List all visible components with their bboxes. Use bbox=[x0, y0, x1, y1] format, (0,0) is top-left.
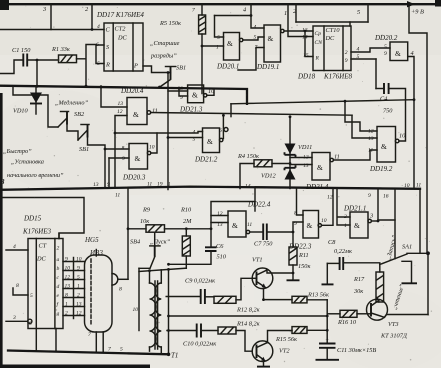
svg-text:510: 510 bbox=[217, 254, 227, 261]
wire: x376 down to C4 bbox=[375, 59, 377, 89]
wire: C1 right lead bbox=[27, 59, 58, 61]
svg-text:R9: R9 bbox=[142, 207, 151, 214]
svg-text:DC: DC bbox=[117, 35, 128, 42]
svg-text:CT2: CT2 bbox=[115, 26, 127, 33]
svg-text:10: 10 bbox=[76, 257, 82, 263]
transformer T1 right winding bbox=[155, 270, 161, 354]
wire: x128 drop from bus bbox=[127, 188, 129, 280]
svg-text:g: g bbox=[57, 311, 60, 317]
wire: DD19.1 pin7 stub bbox=[238, 48, 264, 71]
svg-text:SA1: SA1 bbox=[402, 244, 412, 251]
IC DD15 K176IE3 bbox=[22, 215, 63, 329]
wire: step x231 bbox=[230, 104, 232, 117]
wire: R14 to VT2 base bbox=[236, 331, 252, 352]
svg-text:R: R bbox=[105, 62, 110, 69]
wire: x168.5 transformer centre drop bbox=[168, 269, 170, 354]
wire: R9 line y228.8 bbox=[128, 228, 211, 230]
capacitor C4 bbox=[380, 83, 393, 115]
svg-text:DD21.1: DD21.1 bbox=[343, 205, 366, 213]
wire: y22 link bbox=[296, 21, 368, 23]
svg-text:&: & bbox=[207, 137, 213, 146]
transistor VT3 bbox=[357, 296, 408, 339]
svg-text:5: 5 bbox=[30, 293, 33, 299]
svg-text:13: 13 bbox=[217, 222, 223, 228]
svg-text:DD17 К176ИЕ4: DD17 К176ИЕ4 bbox=[96, 11, 144, 19]
junction bbox=[167, 71, 170, 74]
svg-text:R5 150к: R5 150к bbox=[159, 20, 181, 27]
svg-text:&: & bbox=[133, 110, 139, 119]
svg-text:R1 33к: R1 33к bbox=[51, 46, 70, 53]
svg-text:a: a bbox=[57, 257, 60, 263]
svg-text:10: 10 bbox=[65, 266, 71, 272]
svg-text:14: 14 bbox=[245, 184, 251, 190]
ground (C8) bbox=[322, 283, 334, 285]
svg-text:4: 4 bbox=[243, 7, 246, 14]
wire: VT2 emitter ground bbox=[263, 361, 265, 366]
junction bbox=[36, 85, 39, 88]
svg-text:12: 12 bbox=[76, 311, 82, 317]
wire: DD17 P output to SB1 bbox=[143, 66, 171, 73]
wire: rail lower segment bbox=[427, 253, 429, 314]
wire: drop x37 to lower bus bbox=[36, 60, 38, 86]
svg-text:VD12: VD12 bbox=[261, 173, 277, 180]
svg-text:DD19.2: DD19.2 bbox=[369, 165, 393, 173]
svg-text:&: & bbox=[395, 49, 401, 58]
wire: R11 bottom / VT1 collector node bbox=[292, 265, 294, 280]
svg-text:R11: R11 bbox=[298, 252, 309, 259]
svg-text:14: 14 bbox=[302, 35, 308, 41]
svg-text:13: 13 bbox=[76, 302, 82, 308]
svg-text:CT: CT bbox=[39, 243, 47, 250]
resistor R16 bbox=[337, 310, 357, 326]
wire: y316 to R16 bbox=[327, 313, 340, 315]
gate DD19.1 bbox=[256, 25, 284, 71]
svg-text:VT2: VT2 bbox=[279, 348, 290, 355]
svg-text:К176ИЕ3: К176ИЕ3 bbox=[22, 228, 51, 236]
svg-text:10: 10 bbox=[149, 145, 155, 151]
wire: DD20.2 out down long x414 bbox=[408, 57, 414, 187]
svg-text:4: 4 bbox=[193, 130, 196, 136]
frame: top-right corner mark bbox=[435, 0, 441, 7]
svg-text:SB2: SB2 bbox=[74, 111, 85, 118]
wire: SB2 to SB1 bbox=[67, 125, 78, 141]
svg-text:SB1: SB1 bbox=[176, 65, 186, 72]
transistor VT2 bbox=[252, 341, 290, 362]
resistor R12 bbox=[214, 296, 260, 313]
svg-text:5: 5 bbox=[97, 61, 100, 67]
wire: VT2 collector to R15 bbox=[268, 331, 293, 343]
svg-text:DD20.4: DD20.4 bbox=[120, 87, 144, 95]
svg-text:12: 12 bbox=[327, 195, 333, 201]
svg-text:C9 0,022мк: C9 0,022мк bbox=[185, 278, 215, 285]
svg-text:DD15: DD15 bbox=[23, 215, 42, 223]
frame: left border bbox=[0, 93, 3, 368]
svg-text:R15 56к: R15 56к bbox=[275, 336, 297, 343]
wire: y220 link bbox=[378, 219, 395, 221]
wire: vertical drop x92 from top rail bbox=[91, 4, 93, 29]
resistor R15 bbox=[275, 327, 307, 343]
svg-text:5: 5 bbox=[357, 9, 360, 16]
svg-text:„Медленно”: „Медленно” bbox=[55, 100, 89, 107]
switch SB2 chain wiring bbox=[13, 87, 58, 127]
capacitor C11 bbox=[319, 337, 376, 355]
svg-text:4: 4 bbox=[13, 244, 16, 250]
junction bbox=[91, 28, 94, 31]
wire: DD21.3 out connector bbox=[207, 89, 214, 96]
svg-text:10к: 10к bbox=[140, 218, 149, 225]
svg-text:DD20.2: DD20.2 bbox=[374, 34, 398, 42]
wire: vertical x251 to DD19.1 pin4 bbox=[251, 4, 264, 28]
svg-text:&: & bbox=[381, 142, 387, 151]
gate DD21.4 bbox=[305, 153, 333, 192]
svg-text:1: 1 bbox=[284, 10, 287, 17]
svg-text:P: P bbox=[133, 63, 138, 70]
svg-text:2: 2 bbox=[57, 246, 60, 252]
resistor R17 bbox=[353, 272, 384, 302]
svg-text:9: 9 bbox=[122, 156, 125, 162]
svg-text:&: & bbox=[354, 221, 360, 230]
wire: DD22.3 pin8 from bus bbox=[297, 189, 304, 216]
svg-text:R10: R10 bbox=[180, 207, 192, 214]
wire: DD15 pin3 stub with bubble bbox=[6, 320, 27, 322]
svg-text:b: b bbox=[57, 266, 60, 272]
wire: feedback y133 bbox=[115, 132, 203, 134]
wire: DD22.4 pin link bbox=[211, 202, 255, 229]
diode VD12 bbox=[261, 165, 296, 179]
gate DD22.3 bbox=[288, 211, 321, 251]
wire: DD21.1 out to x378 bbox=[371, 220, 378, 222]
switch SB1 (top) bbox=[160, 65, 187, 88]
wire: x139 drop bbox=[138, 268, 140, 330]
svg-text:8: 8 bbox=[119, 287, 122, 293]
svg-text:9: 9 bbox=[368, 193, 371, 199]
wire: top link y15.5 bbox=[215, 15, 252, 17]
svg-text:12: 12 bbox=[368, 129, 374, 135]
gate DD21.1 bbox=[343, 205, 371, 239]
wire: x378 drop bbox=[377, 189, 379, 221]
resistor R1 bbox=[51, 46, 77, 63]
wire: C4 right to DD19.2 out bbox=[389, 89, 406, 142]
wire: heater line y272-268 bbox=[139, 268, 186, 271]
svg-text:11: 11 bbox=[416, 183, 421, 189]
wire: DD18 out 2 bbox=[351, 58, 376, 60]
svg-text:7: 7 bbox=[192, 8, 195, 14]
capacitor C9 bbox=[166, 278, 215, 305]
svg-text:13: 13 bbox=[118, 101, 124, 107]
arrow on top rail bbox=[407, 1, 415, 7]
svg-text:11: 11 bbox=[152, 108, 158, 115]
wire: x395 drop to SA1 lever bbox=[394, 189, 396, 259]
wire: horizontal y29.5 to DD17 pin C bbox=[0, 29, 104, 31]
svg-text:VD10: VD10 bbox=[13, 108, 29, 115]
diode VD11 bbox=[285, 115, 313, 188]
wire: x214.5 to DD20.1 pin5 bbox=[215, 16, 224, 38]
gate DD19.2 bbox=[369, 127, 399, 174]
svg-text:150к: 150к bbox=[298, 263, 310, 270]
frame: bottom-left border bbox=[0, 365, 150, 368]
svg-text:2М: 2М bbox=[183, 218, 192, 225]
svg-text:7: 7 bbox=[108, 347, 111, 353]
wire: SB1 to DD20.3 pin8 riser bbox=[88, 138, 106, 187]
wire: DD21.3 pin9 riser x179 bbox=[179, 88, 188, 97]
capacitor C7 bbox=[250, 224, 274, 248]
bus B (y104 sloping) bbox=[231, 100, 414, 104]
svg-text:4: 4 bbox=[357, 47, 360, 53]
svg-text:„Старшие: „Старшие bbox=[150, 40, 180, 47]
svg-text:30к: 30к bbox=[353, 288, 363, 295]
svg-text:9: 9 bbox=[65, 257, 68, 263]
svg-text:0,22мк: 0,22мк bbox=[334, 248, 352, 255]
wire: C7 to DD22.3 pin9 bbox=[267, 222, 303, 232]
wire: DD18 out to DD20.2 pin bbox=[351, 48, 390, 52]
capacitor C10 bbox=[167, 324, 218, 348]
svg-text:12: 12 bbox=[117, 109, 123, 115]
indicator HG5 IV-3 bbox=[84, 236, 118, 332]
svg-text:C4: C4 bbox=[380, 96, 387, 103]
svg-text:4: 4 bbox=[97, 24, 100, 30]
svg-text:2: 2 bbox=[345, 50, 348, 56]
svg-text:6: 6 bbox=[219, 128, 222, 134]
svg-text:750: 750 bbox=[383, 108, 393, 115]
wire: vertical x296 down bbox=[295, 4, 297, 22]
switch SB2 bbox=[58, 111, 85, 127]
wire: bus drop x337 to DD21.1 pins bbox=[337, 189, 350, 225]
svg-text:R13 56к: R13 56к bbox=[307, 292, 329, 299]
svg-text:DD22.4: DD22.4 bbox=[247, 201, 271, 209]
svg-text:SB1: SB1 bbox=[79, 146, 89, 153]
wire: DD15 top pin to bus link bbox=[58, 234, 60, 239]
transformer T1 left winding bbox=[150, 270, 157, 351]
svg-text:&: & bbox=[268, 34, 274, 43]
junction bbox=[289, 162, 292, 165]
ground (R11) bbox=[287, 279, 300, 281]
junction bbox=[36, 59, 39, 62]
second middle line bbox=[0, 198, 84, 239]
wire: C1 left lead to left edge bbox=[0, 60, 23, 74]
wire: VT1 emitter drop bbox=[263, 289, 265, 300]
wire: R4 right bbox=[272, 163, 290, 165]
node 6 mark bbox=[224, 128, 228, 132]
svg-text:DD18: DD18 bbox=[297, 73, 316, 81]
transistor VT1 bbox=[252, 257, 273, 289]
wire: DD15 pin8 stub bbox=[13, 288, 28, 295]
svg-text:&: & bbox=[192, 91, 198, 100]
svg-text:9: 9 bbox=[77, 266, 80, 272]
wire: x420 drop to SA1 bbox=[419, 189, 421, 254]
ground (C11) bbox=[316, 359, 340, 361]
wire: vertical x288 to DD18 CN bbox=[288, 4, 313, 36]
svg-text:К176ИЕ8: К176ИЕ8 bbox=[323, 73, 352, 81]
svg-text:3: 3 bbox=[42, 6, 46, 13]
diode VD10 bbox=[13, 86, 42, 114]
svg-text:&: & bbox=[307, 221, 313, 230]
wire: R1 to DD17 R/S network bbox=[77, 45, 97, 87]
wire: R4 left leg to bus bbox=[240, 164, 254, 189]
wire: R15 right to rail bbox=[307, 329, 327, 331]
svg-text:12: 12 bbox=[217, 211, 223, 217]
IC DD18 K176IE8 bbox=[297, 26, 352, 81]
svg-text:10: 10 bbox=[321, 218, 327, 224]
switch SB4 bbox=[130, 233, 171, 269]
svg-text:CT10: CT10 bbox=[326, 27, 341, 34]
wire: DD22.4 power pin from bus bbox=[254, 188, 256, 211]
wire: C8 left to ground bbox=[326, 263, 328, 284]
svg-text:R4 150к: R4 150к bbox=[237, 153, 259, 160]
wire: R13 right to rail x327 bbox=[307, 299, 327, 301]
wire: to DD18 R pin15 bbox=[305, 31, 313, 57]
svg-text:12: 12 bbox=[65, 275, 71, 281]
resistor R13 bbox=[264, 292, 330, 303]
svg-text:8: 8 bbox=[294, 211, 297, 217]
resistor R10 bbox=[180, 207, 192, 269]
gate DD20.4 bbox=[120, 87, 151, 125]
svg-text:10: 10 bbox=[399, 133, 406, 140]
svg-text:5: 5 bbox=[384, 44, 387, 50]
wire: C4 left bbox=[376, 88, 384, 90]
wire: DD15 pin4 stub bbox=[6, 249, 28, 251]
capacitor C8 bbox=[327, 239, 380, 270]
svg-text:R14 8,2к: R14 8,2к bbox=[236, 321, 260, 328]
svg-text:SB4: SB4 bbox=[130, 239, 140, 246]
wire: x101 from bus to DD20.4 pin13 bbox=[101, 86, 127, 107]
svg-text:„Установка: „Установка bbox=[11, 159, 44, 166]
wire: DD19.1 out to DD18 Cp bbox=[284, 30, 313, 32]
svg-text:2: 2 bbox=[77, 293, 80, 299]
capacitor C1 bbox=[12, 47, 31, 67]
svg-text:13: 13 bbox=[93, 182, 99, 188]
gate DD20.2 bbox=[374, 34, 408, 61]
switch SA1 bbox=[380, 244, 430, 284]
svg-text:2: 2 bbox=[344, 214, 347, 220]
wire: R5 bottom to DD20.1 pin1 and DD21.3 bbox=[201, 34, 203, 94]
svg-text:CN: CN bbox=[315, 40, 323, 46]
wire: DD20.1 out to DD19.1 pin5 bbox=[243, 37, 264, 40]
power +9V rail bbox=[409, 4, 427, 253]
wire: DD21.4 pin13 stub bbox=[290, 164, 312, 166]
svg-text:9: 9 bbox=[107, 182, 110, 188]
svg-text:DC: DC bbox=[325, 35, 336, 42]
resistor R9 bbox=[140, 207, 165, 233]
svg-text:8: 8 bbox=[122, 146, 125, 152]
wire: DD15 bottom pin drops bbox=[36, 329, 56, 352]
wire: x368 from top rail bbox=[367, 4, 369, 22]
wire: R17 top to SA1 node bbox=[379, 264, 381, 272]
svg-text:R16 10: R16 10 bbox=[337, 319, 357, 326]
main bus of top half bbox=[0, 86, 247, 104]
svg-text:C10 0,022мк: C10 0,022мк bbox=[183, 341, 216, 348]
svg-text:13: 13 bbox=[368, 136, 374, 142]
svg-text:3: 3 bbox=[369, 213, 373, 220]
svg-text:C6: C6 bbox=[216, 243, 224, 250]
wire: DD22.4 pin 12 stub bbox=[211, 215, 228, 217]
svg-text:&: & bbox=[135, 154, 141, 163]
wire: DD20.4 pin12 riser x115 bbox=[115, 116, 127, 187]
svg-text:HG5: HG5 bbox=[84, 236, 99, 244]
svg-text:11: 11 bbox=[368, 148, 373, 154]
wire: vertical drop x51 from top rail bbox=[50, 4, 52, 29]
svg-text:разряды”: разряды” bbox=[150, 53, 177, 60]
svg-text:DD19.1: DD19.1 bbox=[256, 63, 279, 71]
svg-text:VT3: VT3 bbox=[388, 321, 399, 328]
svg-text:начального времени”: начального времени” bbox=[7, 172, 64, 179]
svg-text:3: 3 bbox=[12, 315, 16, 321]
bottom bus wire bbox=[8, 351, 169, 355]
svg-text:+9 В: +9 В bbox=[411, 9, 424, 16]
junction bbox=[158, 86, 161, 89]
main middle bus bbox=[0, 187, 420, 190]
svg-text:5: 5 bbox=[77, 275, 80, 281]
svg-text:6: 6 bbox=[96, 42, 99, 48]
wire: DD17 S-R tie loop bbox=[96, 45, 104, 64]
wire: DD20.3 out riser x157 bbox=[151, 133, 157, 153]
capacitor C6 bbox=[167, 229, 227, 266]
svg-text:15: 15 bbox=[303, 53, 309, 59]
resistor R14 bbox=[218, 321, 260, 335]
transformer T1 core bbox=[155, 281, 158, 349]
svg-text:13: 13 bbox=[65, 284, 71, 290]
resistor R4 bbox=[237, 153, 272, 167]
wire: DD21.2 out riser to line A bbox=[222, 115, 224, 138]
svg-text:11: 11 bbox=[247, 222, 252, 228]
resistor R11 bbox=[289, 232, 310, 270]
svg-text:DD20.3: DD20.3 bbox=[122, 174, 146, 182]
svg-text:C8: C8 bbox=[328, 239, 336, 246]
wire: VT3 collector to rail bbox=[385, 315, 429, 318]
svg-text:5: 5 bbox=[254, 35, 257, 41]
svg-text:R17: R17 bbox=[353, 276, 365, 283]
wire: HG5 bottom pins bbox=[96, 332, 103, 352]
svg-text:d: d bbox=[57, 284, 60, 290]
svg-text:„Быстро”: „Быстро” bbox=[3, 148, 32, 155]
wire: vertical x168 long drop bbox=[167, 73, 169, 190]
wire: DD21.4 out to DD19.2 pin11 bbox=[333, 150, 377, 160]
svg-text:DC: DC bbox=[36, 256, 47, 263]
svg-text:5: 5 bbox=[120, 347, 123, 353]
svg-text:1: 1 bbox=[65, 302, 68, 308]
svg-text:1: 1 bbox=[77, 284, 80, 290]
wire: x345 step to DD19.2 pin12 bbox=[345, 101, 377, 131]
svg-text:11: 11 bbox=[147, 182, 152, 188]
wire: DD20.3 pin 9 bbox=[109, 157, 129, 159]
svg-text:9: 9 bbox=[345, 58, 348, 64]
svg-text:8: 8 bbox=[65, 293, 68, 299]
svg-text:Т1: Т1 bbox=[171, 352, 178, 360]
gate DD20.3 bbox=[122, 144, 151, 182]
line A: DD20.4 out long run bbox=[151, 113, 352, 116]
wire: DD21.3 pin8 stub bbox=[168, 90, 188, 92]
svg-text:19: 19 bbox=[157, 182, 163, 188]
svg-text:2: 2 bbox=[65, 311, 68, 317]
svg-text:R12 8,2к: R12 8,2к bbox=[236, 307, 260, 314]
svg-text:&: & bbox=[232, 221, 238, 230]
wire: x352 down to DD19.2 pin13 bbox=[352, 115, 377, 138]
svg-text:5: 5 bbox=[357, 54, 360, 60]
DD15 segment rows grid bbox=[57, 257, 85, 319]
svg-text:DD21.2: DD21.2 bbox=[194, 156, 218, 164]
svg-text:12: 12 bbox=[303, 155, 309, 161]
svg-text:C7 750: C7 750 bbox=[254, 241, 273, 248]
wire: DD20.3 pin 8 bbox=[105, 148, 129, 150]
svg-text:10: 10 bbox=[404, 183, 410, 189]
wire: rail x327 bbox=[326, 300, 328, 343]
svg-text:5: 5 bbox=[217, 35, 220, 41]
wire: long line y316 bbox=[169, 315, 328, 317]
svg-text:8: 8 bbox=[16, 283, 19, 289]
switch SB1 (lower) bbox=[78, 125, 89, 154]
svg-text:1: 1 bbox=[216, 45, 219, 51]
wire: HG5 right pin to x128 bbox=[118, 278, 128, 280]
svg-text:+: + bbox=[325, 337, 329, 344]
